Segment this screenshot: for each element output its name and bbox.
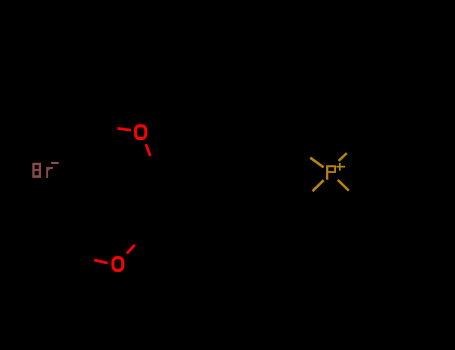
bromide charge minus [51, 162, 59, 164]
bromide anion Br- label [32, 163, 53, 178]
methyl carbon of bottom methoxy (black half of O-CH3 bond) [80, 257, 94, 260]
bond ring to bottom methoxy O (black half) [136, 220, 151, 240]
carbon skeleton (black on black, invisible as in reference) [80, 101, 406, 260]
bond stub P to phenyl ring (lower left) [313, 180, 324, 191]
methyl carbon of top methoxy (black half of O-CH3 bond) [103, 126, 116, 128]
phosphonium P atom [326, 165, 336, 179]
bond stub O(top) to ring carbon (lower right) [146, 144, 150, 156]
phosphonium charge plus (vertical bar) [339, 163, 341, 171]
bond CH2 to P (black half) [306, 154, 310, 157]
phenyl ring on P (lower right) [346, 185, 406, 245]
bond stub P to phenyl ring (upper right) [339, 153, 347, 161]
bond stub O(top) to methyl carbon (left) [118, 128, 131, 130]
benzene ring (dimethoxyphenyl) [124, 158, 178, 220]
bond ring to top methoxy O (black half) [147, 148, 151, 158]
methoxy oxygen O (bottom) [113, 258, 123, 271]
bond stub O(bottom) to ring carbon (upper right) [127, 245, 135, 254]
bond P to lower-left phenyl (black half) [309, 191, 313, 193]
bond stub P to benzylic CH2 (upper left) [310, 158, 323, 168]
methoxy oxygen O (top) [136, 126, 146, 139]
bond P to lower-right phenyl (black half) [349, 191, 353, 194]
bond stub P to phenyl ring (lower right) [338, 180, 349, 191]
phenyl ring on P (lower left) [256, 185, 316, 245]
alkyl chain from ring to phosphonium CH2 [177, 154, 305, 173]
phenyl ring on P (upper right) [347, 101, 406, 162]
bond stub O(bottom) to methyl carbon (left) [94, 260, 108, 263]
phosphonium charge plus (horizontal bar) [336, 166, 345, 168]
bond P to upper-right phenyl (black half) [347, 152, 354, 153]
